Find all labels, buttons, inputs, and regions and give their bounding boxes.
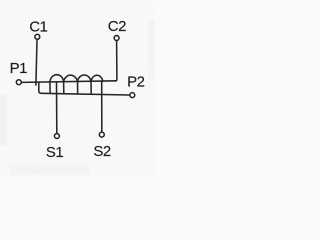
wire S1 stem from top line [56,82,58,132]
coil leg 2 [63,82,65,94]
svg-text:S2: S2 [93,143,111,160]
svg-text:P1: P1 [10,60,28,77]
wire C2 stem to top line [115,41,117,81]
wire S2 stem from top line [101,81,103,131]
svg-text:C2: C2 [108,18,126,35]
terminal C2 [114,36,119,41]
wire left drop and bottom rail to P2 [39,82,129,95]
svg-text:C1: C1 [29,19,47,36]
svg-text:S1: S1 [46,144,64,161]
terminal P2 [130,93,135,98]
coil L1 humps [50,75,103,82]
svg-text:P2: P2 [127,73,145,90]
coil leg 1 [49,82,51,93]
wire top line P1 to C2 junction [22,81,116,83]
coil leg 3 [77,82,79,94]
terminal S1 [54,134,59,139]
terminal C1 [35,34,40,39]
wire C1 stem to top line [36,40,37,85]
terminal P1 [16,80,21,85]
coil leg 4 [90,82,92,94]
terminal S2 [99,132,104,137]
